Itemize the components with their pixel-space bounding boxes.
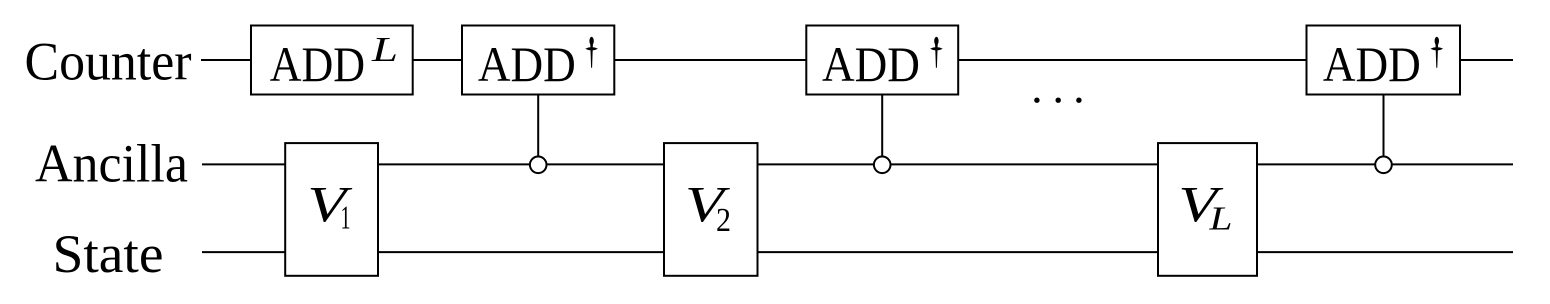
- label State (wire name): [53, 224, 164, 284]
- svg-text:L: L: [371, 30, 398, 69]
- svg-text:ADD: ADD: [478, 36, 576, 92]
- ellipsis dot 1 (omitted repeated layers): [1034, 98, 1039, 103]
- label Ancilla (wire name): [35, 134, 188, 194]
- svg-text:Counter: Counter: [25, 31, 192, 91]
- control wire from gate ADD-dagger 1 down to Ancilla: [537, 94, 539, 157]
- gate V2 box (spans Ancilla and State wires): [664, 143, 758, 276]
- ellipsis dot 3: [1076, 98, 1081, 103]
- gate ADD-dagger 1 box: [462, 26, 614, 95]
- svg-text:2: 2: [716, 202, 731, 239]
- wire State segment 2: [378, 251, 665, 253]
- svg-text:1: 1: [341, 200, 351, 237]
- gate V1 box (spans Ancilla and State wires): [285, 143, 378, 276]
- gate ADD-dagger 3 superscript dagger: [1430, 37, 1443, 68]
- gate ADD^L box: [251, 26, 413, 95]
- wire Ancilla segment 4: [1257, 163, 1513, 165]
- svg-text:State: State: [53, 224, 164, 284]
- svg-text:ADD: ADD: [270, 36, 365, 92]
- gate VL box (spans Ancilla and State wires): [1158, 143, 1257, 276]
- wire Ancilla segment 3: [757, 163, 1159, 165]
- gate ADD-dagger 2 superscript dagger: [930, 37, 943, 68]
- open control circle 3 on Ancilla wire: [1375, 157, 1392, 174]
- wire State segment 4: [1257, 251, 1513, 253]
- svg-text:L: L: [1208, 201, 1232, 238]
- open control circle 2 on Ancilla wire: [874, 157, 891, 174]
- ellipsis dot 2: [1056, 98, 1061, 103]
- wire Counter segment 3: [614, 59, 807, 61]
- wire State segment 1: [202, 251, 286, 253]
- svg-text:ADD: ADD: [822, 36, 920, 92]
- wire Counter segment 2: [413, 59, 462, 61]
- gate ADD-dagger 1 superscript dagger: [585, 37, 598, 68]
- svg-text:ADD: ADD: [1323, 36, 1421, 92]
- wire State segment 3: [757, 251, 1159, 253]
- label Counter (wire name): [25, 31, 192, 91]
- open control circle 1 on Ancilla wire: [530, 157, 547, 174]
- control wire from gate ADD-dagger 2 down to Ancilla: [881, 94, 883, 157]
- wire Ancilla segment 1: [202, 163, 286, 165]
- svg-text:Ancilla: Ancilla: [35, 134, 188, 194]
- wire Counter segment 4: [958, 59, 1307, 61]
- wire Counter segment 5: [1460, 59, 1513, 61]
- wire Counter segment 1: [201, 59, 251, 61]
- control wire from gate ADD-dagger 3 down to Ancilla: [1383, 94, 1385, 157]
- gate ADD-dagger 3 box: [1307, 26, 1461, 95]
- gate ADD-dagger 2 box: [806, 26, 958, 95]
- wire Ancilla segment 2: [378, 163, 665, 165]
